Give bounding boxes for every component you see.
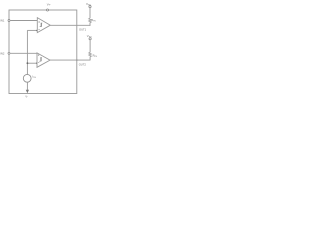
terminal VPU2	[89, 38, 91, 40]
wire current source to ground arrow	[26, 82, 28, 91]
wire IN2 to comparator U2	[10, 52, 37, 54]
svg-text:V+: V+	[47, 2, 51, 6]
comparator U1	[37, 18, 50, 33]
node junction at U1 input	[36, 30, 38, 32]
U2 hysteresis symbol	[39, 58, 42, 62]
node junction rail to U2	[27, 62, 29, 64]
U1 plus sign	[38, 21, 39, 22]
wire IN1 to comparator U1	[10, 20, 37, 22]
comparator U2	[37, 53, 50, 67]
node OUT2 border crossing	[76, 59, 77, 60]
svg-text:V-: V-	[25, 94, 28, 98]
wire U1 inverting input	[27, 29, 37, 31]
resistor R1 zigzag	[89, 18, 92, 22]
wire OUT1	[50, 24, 90, 26]
current source I1	[23, 74, 31, 82]
pin IN1 on left border	[8, 20, 10, 22]
wire resistor R1 to OUT1	[89, 23, 91, 26]
U2 minus sign	[38, 61, 39, 63]
terminal VPU1	[89, 6, 91, 8]
U1 hysteresis symbol	[40, 23, 43, 27]
svg-text:IN1: IN1	[0, 19, 5, 23]
wire OUT2	[50, 59, 90, 61]
U1 minus sign	[38, 28, 39, 30]
wire VPU2 to resistor R2	[89, 40, 91, 52]
wire VPU1 to resistor R1	[89, 8, 91, 18]
wire U2 inverting input	[27, 62, 37, 64]
package box outline	[9, 10, 77, 94]
node junction at U2 input	[36, 62, 38, 64]
svg-text:OUT1: OUT1	[79, 28, 87, 32]
pin IN2 on left border	[8, 52, 10, 54]
wire threshold rail vertical	[26, 30, 28, 74]
svg-text:IN2: IN2	[0, 51, 5, 55]
U2 plus sign	[38, 54, 39, 55]
wire resistor R2 to OUT2	[89, 57, 91, 61]
resistor R2 zigzag	[89, 52, 92, 56]
pin V+ on top border	[47, 9, 49, 11]
svg-text:OUT2: OUT2	[79, 62, 87, 66]
arrowhead to V- rail	[26, 90, 29, 94]
